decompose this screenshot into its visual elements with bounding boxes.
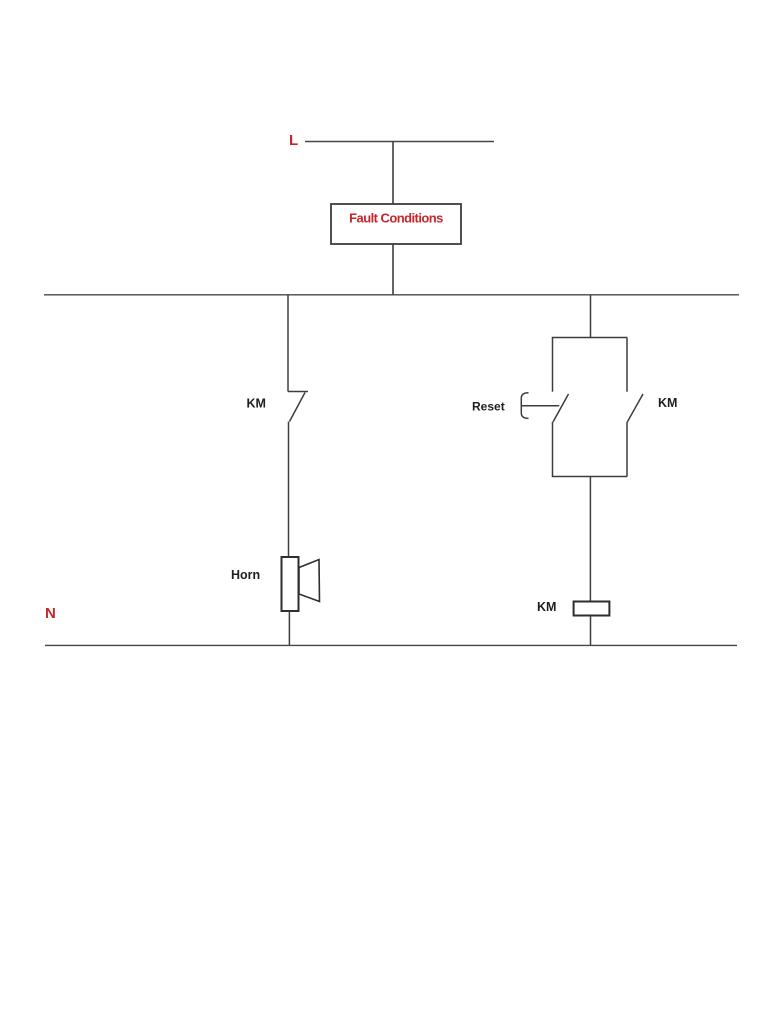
svg-text:Horn: Horn [231,568,260,582]
wire reset branch lower [552,422,554,477]
wire parallel-branch top rail [552,337,627,339]
svg-text:KM: KM [537,600,556,614]
wire coil to bottom bus [590,616,592,646]
contact KM normally-closed (left branch) [288,392,308,422]
svg-text:Fault Conditions: Fault Conditions [349,211,443,226]
svg-text:N: N [45,605,56,622]
wire from parallel branch to coil [589,477,591,602]
svg-text:KM: KM [658,396,677,410]
wire L supply line [305,141,494,143]
coil KM [574,602,610,616]
svg-text:Reset: Reset [472,400,505,414]
wire from L line to Fault Conditions box [392,142,394,205]
wire left branch upper [287,295,289,392]
contact KM normally-open (right of reset) [627,338,643,477]
wire from Fault Conditions box to top bus [392,244,394,295]
wire reset branch upper [552,338,554,392]
horn (sounder) [282,557,320,611]
wire bottom bus (neutral) [45,644,737,646]
wire parallel-branch bottom rail [552,476,627,478]
block Fault Conditions [331,204,461,244]
pushbutton Reset normally-open [521,393,568,422]
wire right feed from top bus [590,295,592,338]
wire top bus [44,294,739,296]
svg-text:KM: KM [247,397,266,411]
svg-text:L: L [289,132,298,149]
wire left branch lower [288,422,290,558]
wire horn to bottom bus [288,611,290,645]
